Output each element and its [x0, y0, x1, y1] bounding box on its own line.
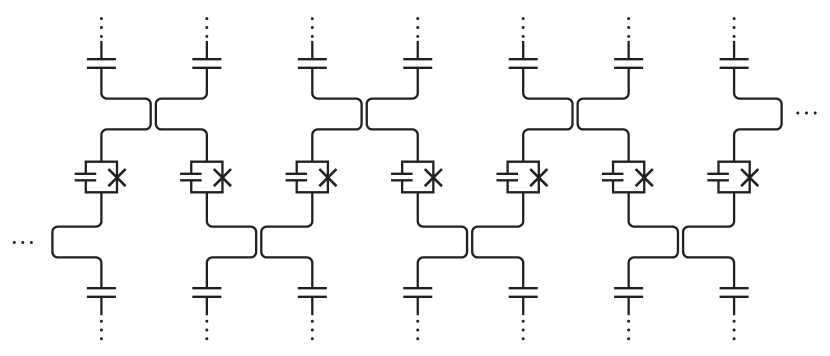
capacitor C1b (bottom) — [87, 288, 116, 297]
dotted wire continuation top, column 1 — [100, 17, 103, 38]
dotted wire continuation bottom, column 4 — [416, 320, 419, 340]
junction loop box J7 — [719, 162, 750, 193]
capacitor C4b (bottom) — [403, 288, 432, 297]
wire with jog from junction J2 to C2b — [207, 192, 256, 288]
wire with jog from junction J5 to C5b — [472, 192, 523, 288]
shunt capacitor inside J3 — [286, 174, 308, 181]
wire with jog from C5t to junction J5 — [523, 68, 572, 162]
wire stub above top capacitor C7t — [733, 41, 735, 59]
wire with jog from C6t to junction J6 — [578, 68, 629, 162]
dotted wire continuation bottom, column 2 — [205, 320, 208, 340]
wire with jog from C2t to junction J2 — [156, 68, 207, 162]
wire stub below bottom capacitor C7b — [733, 297, 735, 315]
wire with jog from junction J3 to C3b — [261, 192, 312, 288]
wire with jog from C3t to junction J3 — [312, 68, 361, 162]
dotted wire continuation top, column 5 — [522, 17, 525, 38]
junction loop box J3 — [297, 162, 328, 193]
capacitor C6b (bottom) — [614, 288, 643, 297]
junction loop box J1 — [86, 162, 117, 193]
dotted wire continuation bottom, column 3 — [311, 320, 314, 340]
dotted wire continuation top, column 7 — [733, 17, 736, 38]
capacitor C3b (bottom) — [298, 288, 327, 297]
wire with jog from junction J7 to C7b — [683, 192, 734, 288]
wire with jog from C1t to junction J1 — [101, 68, 150, 162]
ellipsis left (chain continues) — [13, 241, 33, 244]
shunt capacitor inside J5 — [497, 174, 519, 181]
dotted wire continuation top, column 2 — [205, 17, 208, 38]
wire stub below bottom capacitor C3b — [311, 297, 313, 315]
capacitor C1t (top) — [87, 59, 116, 68]
Josephson junction cross X4 — [425, 169, 442, 186]
Josephson junction cross X5 — [530, 169, 547, 186]
Josephson junction cross X1 — [108, 169, 125, 186]
Josephson junction cross X7 — [741, 169, 758, 186]
capacitor C5b (bottom) — [509, 288, 538, 297]
wire stub above top capacitor C5t — [522, 41, 524, 59]
Josephson junction cross X2 — [214, 169, 231, 186]
dotted wire continuation bottom, column 5 — [522, 320, 525, 340]
wire stub below bottom capacitor C6b — [628, 297, 630, 315]
wire with jog from junction J4 to C4b — [418, 192, 467, 288]
wire with jog from C7t to junction J7 — [734, 68, 782, 162]
junction loop box J6 — [613, 162, 644, 193]
dotted wire continuation top, column 6 — [627, 17, 630, 38]
wire stub above top capacitor C6t — [628, 41, 630, 59]
dotted wire continuation top, column 4 — [416, 17, 419, 38]
capacitor C7b (bottom) — [720, 288, 749, 297]
wire with jog from C4t to junction J4 — [367, 68, 418, 162]
shunt capacitor inside J2 — [180, 174, 202, 181]
capacitor C7t (top) — [720, 59, 749, 68]
junction loop box J4 — [402, 162, 433, 193]
dotted wire continuation bottom, column 6 — [627, 320, 630, 340]
dotted wire continuation bottom, column 7 — [733, 320, 736, 340]
wire with jog from junction J1 to C1b — [52, 192, 101, 288]
capacitor C3t (top) — [298, 59, 327, 68]
wire stub below bottom capacitor C1b — [100, 297, 102, 315]
Josephson junction cross X3 — [319, 169, 336, 186]
dotted wire continuation bottom, column 1 — [100, 320, 103, 340]
wire stub above top capacitor C2t — [206, 41, 208, 59]
Josephson junction cross X6 — [636, 169, 653, 186]
ellipsis right (chain continues) — [796, 112, 816, 115]
shunt capacitor inside J7 — [707, 174, 729, 181]
shunt capacitor inside J6 — [602, 174, 624, 181]
wire with jog from junction J6 to C6b — [629, 192, 678, 288]
wire stub below bottom capacitor C2b — [206, 297, 208, 315]
wire stub above top capacitor C3t — [311, 41, 313, 59]
junction loop box J2 — [191, 162, 222, 193]
wire stub below bottom capacitor C4b — [417, 297, 419, 315]
capacitor C6t (top) — [614, 59, 643, 68]
capacitor C2t (top) — [192, 59, 221, 68]
shunt capacitor inside J1 — [75, 174, 97, 181]
dotted wire continuation top, column 3 — [311, 17, 314, 38]
wire stub below bottom capacitor C5b — [522, 297, 524, 315]
capacitor C5t (top) — [509, 59, 538, 68]
capacitor C4t (top) — [403, 59, 432, 68]
shunt capacitor inside J4 — [391, 174, 413, 181]
capacitor C2b (bottom) — [192, 288, 221, 297]
junction loop box J5 — [508, 162, 539, 193]
wire stub above top capacitor C4t — [417, 41, 419, 59]
wire stub above top capacitor C1t — [100, 41, 102, 59]
